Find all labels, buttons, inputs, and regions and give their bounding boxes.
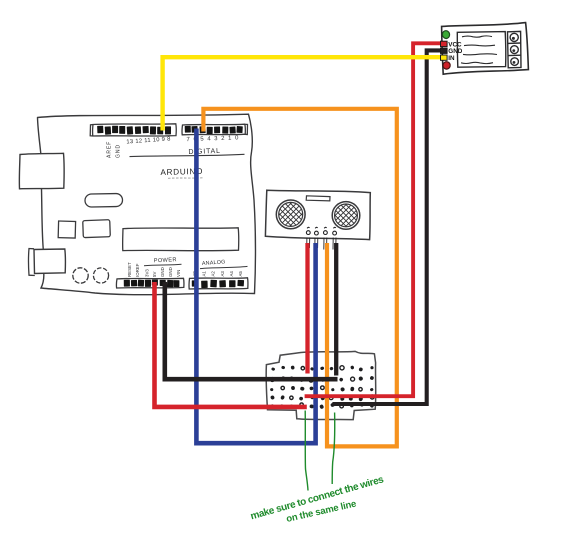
- header J4 pins: [192, 280, 244, 288]
- sensor crystal Y1: [306, 196, 330, 201]
- wire black: arduino GND to breadboard: [165, 282, 338, 379]
- DIGITAL underline: [130, 154, 245, 156]
- arduino board U1 outline: [38, 114, 256, 295]
- relay body (inner box with squiggles): [457, 32, 506, 68]
- wire black: sensor GND into breadboard: [334, 243, 338, 376]
- svg-text:3V3: 3V3: [145, 269, 150, 277]
- relay labels VCC GND IN: [448, 41, 462, 62]
- arduino digital header J1 (AREF-8) box: [90, 124, 176, 136]
- arduino mcu chip U5: [123, 228, 239, 251]
- arduino capacitor C2: [93, 268, 108, 283]
- relay pin pad IN: [441, 55, 448, 60]
- svg-text:AREF: AREF: [107, 141, 113, 158]
- svg-text:POWER: POWER: [154, 257, 177, 264]
- ultrasonic sensor U2 HC-SR04 outline: [265, 190, 370, 239]
- relay terminal block: [508, 31, 522, 67]
- svg-text:5V: 5V: [152, 272, 157, 277]
- wire red: sensor VCC into breadboard: [305, 243, 309, 374]
- arduino small ic U4: [83, 220, 111, 238]
- svg-text:VIN: VIN: [176, 270, 181, 277]
- svg-text:GND: GND: [116, 144, 122, 158]
- arduino small ic U3: [58, 221, 75, 238]
- header J1 labels AREF GND: [107, 141, 122, 158]
- sensor transducer T1: [266, 200, 316, 229]
- svg-text:IN: IN: [448, 55, 455, 62]
- svg-text:A4: A4: [229, 271, 234, 277]
- wire yellow: arduino pin9 to relay IN: [163, 57, 443, 130]
- svg-text:A2: A2: [211, 271, 216, 277]
- svg-text:GND: GND: [168, 267, 173, 277]
- svg-text:GND: GND: [160, 267, 165, 277]
- svg-text:DIGITAL: DIGITAL: [188, 148, 221, 156]
- svg-text:RESET: RESET: [127, 262, 132, 277]
- header J2 pins: [185, 126, 243, 134]
- wire red: relay VCC to breadboard: [305, 43, 443, 396]
- arduino capacitor C1: [73, 268, 88, 283]
- relay module K1 outline: [442, 23, 529, 75]
- header J3 pin labels: [127, 262, 181, 277]
- arduino analog header J4 box: [189, 278, 248, 289]
- annotation leader line right: [332, 413, 335, 485]
- arduino power jack J6: [34, 249, 65, 274]
- relay body squiggle lines: [461, 36, 497, 64]
- wire red: arduino 5V to breadboard: [155, 282, 307, 407]
- sensor pin circles and tiny labels: [306, 227, 336, 235]
- arduino digital header J2 (7-0) box: [182, 124, 247, 135]
- relay pin pad VCC: [441, 41, 448, 46]
- breadboard holes: [269, 365, 374, 409]
- svg-text:A1: A1: [201, 271, 206, 277]
- annotation leader line left: [305, 411, 308, 491]
- svg-text:A3: A3: [220, 271, 225, 277]
- sensor pin stubs: [307, 238, 336, 250]
- relay red LED: [442, 61, 451, 70]
- relay green LED: [442, 30, 451, 39]
- header J4 pin labels: [192, 271, 243, 277]
- sensor transducer T2: [321, 202, 370, 230]
- wire blue: arduino pin6 to sensor echo: [196, 129, 315, 444]
- arduino usb connector J5: [19, 153, 64, 189]
- arduino reset button S1 (pill): [85, 193, 123, 207]
- header J1 pins: [97, 126, 171, 135]
- annotation text: [249, 474, 385, 525]
- breadboard BB1 outline: [266, 351, 376, 419]
- svg-text:A5: A5: [238, 271, 243, 277]
- wire black: relay GND to breadboard: [332, 50, 443, 404]
- svg-text:IOREF: IOREF: [135, 263, 140, 277]
- arduino power header J3 box: [116, 278, 184, 288]
- header J3 pins: [124, 279, 180, 287]
- relay pin pad GND: [441, 48, 448, 53]
- wire orange: arduino pin5 to sensor trig: [203, 109, 396, 447]
